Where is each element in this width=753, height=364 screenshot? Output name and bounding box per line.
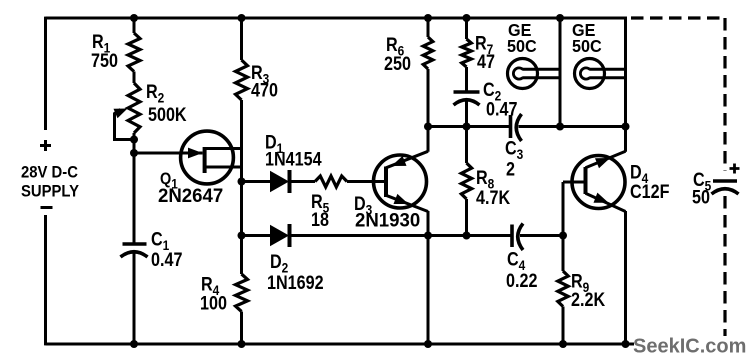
svg-text:0.47: 0.47 (151, 249, 183, 271)
svg-text:250: 250 (384, 53, 411, 75)
svg-text:18: 18 (311, 209, 329, 231)
svg-text:100: 100 (200, 292, 227, 314)
svg-text:1N1692: 1N1692 (267, 272, 324, 294)
svg-text:750: 750 (91, 50, 118, 72)
svg-text:2.2K: 2.2K (571, 289, 605, 311)
svg-text:C12F: C12F (630, 181, 670, 203)
svg-text:0.22: 0.22 (506, 270, 538, 292)
svg-text:47: 47 (477, 51, 495, 73)
svg-text:2N2647: 2N2647 (158, 185, 223, 206)
svg-text:1N4154: 1N4154 (265, 148, 322, 170)
svg-text:0.47: 0.47 (486, 98, 518, 120)
svg-text:SUPPLY: SUPPLY (21, 183, 80, 201)
svg-text:50: 50 (692, 186, 710, 208)
svg-text:50C: 50C (572, 36, 602, 56)
svg-text:470: 470 (251, 79, 278, 101)
svg-text:2N1930: 2N1930 (355, 209, 420, 230)
svg-text:500K: 500K (148, 104, 187, 126)
svg-text:50C: 50C (507, 36, 537, 56)
svg-text:28V D-C: 28V D-C (21, 164, 78, 182)
svg-text:SeekIC.com: SeekIC.com (633, 336, 746, 358)
svg-text:2: 2 (506, 158, 515, 180)
svg-text:4.7K: 4.7K (476, 187, 510, 209)
